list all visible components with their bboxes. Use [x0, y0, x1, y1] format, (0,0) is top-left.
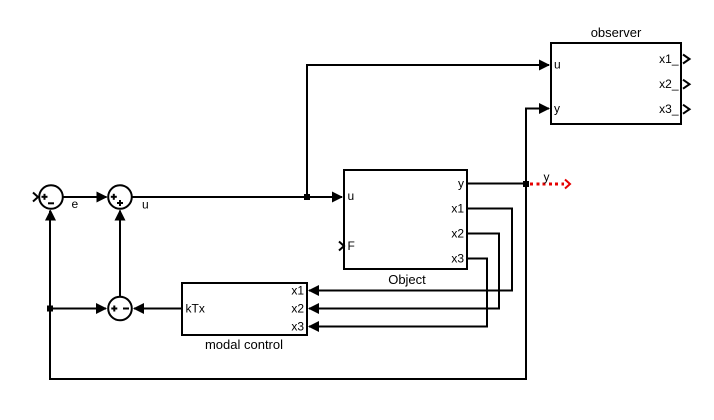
junction dot at u branch — [304, 194, 310, 200]
svg-text:y: y — [458, 177, 464, 191]
svg-text:observer: observer — [591, 25, 642, 40]
S2 plus sign (bottom input) — [117, 200, 123, 206]
wire Object x1 to modal control x1 — [309, 209, 512, 291]
wire u branch up to observer u — [307, 65, 549, 197]
observer output x3_ chevron — [683, 105, 690, 114]
S2 plus sign (left input) — [111, 194, 117, 200]
modal control block — [182, 283, 307, 335]
svg-text:x2_: x2_ — [659, 77, 679, 91]
svg-text:u: u — [142, 198, 149, 212]
junction dot at feedback branch — [47, 306, 53, 312]
S3 minus sign (right input) — [123, 308, 129, 310]
wire Object x2 to modal control x2 — [309, 234, 499, 309]
wire S1 to S2 with label e — [63, 196, 107, 198]
svg-text:F: F — [348, 239, 355, 253]
svg-text:e: e — [72, 197, 79, 211]
svg-text:y: y — [554, 102, 560, 116]
wire Object y to junction — [467, 183, 526, 185]
S1 unconnected input chevron — [33, 193, 38, 202]
svg-text:x1_: x1_ — [659, 52, 679, 66]
sum junction S2 (circle) — [108, 185, 132, 209]
junction dot at y branch — [523, 181, 529, 187]
svg-text:x3: x3 — [291, 320, 304, 334]
feedback wire y down and left and up to S1 — [50, 184, 526, 380]
svg-text:x3_: x3_ — [659, 102, 679, 116]
svg-text:u: u — [554, 58, 561, 72]
svg-text:u: u — [348, 189, 355, 203]
svg-text:x1: x1 — [291, 284, 304, 298]
wire feedback branch to S3 left — [50, 308, 106, 310]
sum junction S1 (circle) — [39, 185, 63, 209]
red open arrowhead — [565, 180, 570, 189]
svg-text:x2: x2 — [291, 302, 304, 316]
wire modal control kTx to S3 — [134, 308, 182, 310]
observer output x1_ chevron — [683, 55, 690, 64]
svg-text:x3: x3 — [451, 252, 464, 266]
svg-text:modal control: modal control — [205, 337, 283, 352]
S3 plus sign (left input) — [111, 306, 117, 312]
S1 plus sign (left input) — [42, 194, 48, 200]
sum junction S3 (circle) — [108, 297, 132, 321]
Object port F unconnected chevron — [339, 242, 344, 251]
svg-text:Object: Object — [388, 272, 426, 287]
wire S2 to Object u with label u — [132, 196, 342, 198]
S1 minus sign (bottom input) — [48, 202, 54, 204]
wire y branch up to observer y — [526, 109, 549, 184]
svg-text:x1: x1 — [451, 202, 464, 216]
svg-text:kTx: kTx — [186, 302, 205, 316]
observer output x2_ chevron — [683, 80, 690, 89]
svg-text:y: y — [544, 170, 550, 184]
svg-text:x2: x2 — [451, 227, 464, 241]
red dashed output wire y — [530, 183, 564, 186]
wire S3 output up to S2 — [119, 211, 121, 297]
wire Object x3 to modal control x3 — [309, 259, 487, 327]
observer block — [551, 43, 681, 124]
Object block — [344, 170, 467, 269]
